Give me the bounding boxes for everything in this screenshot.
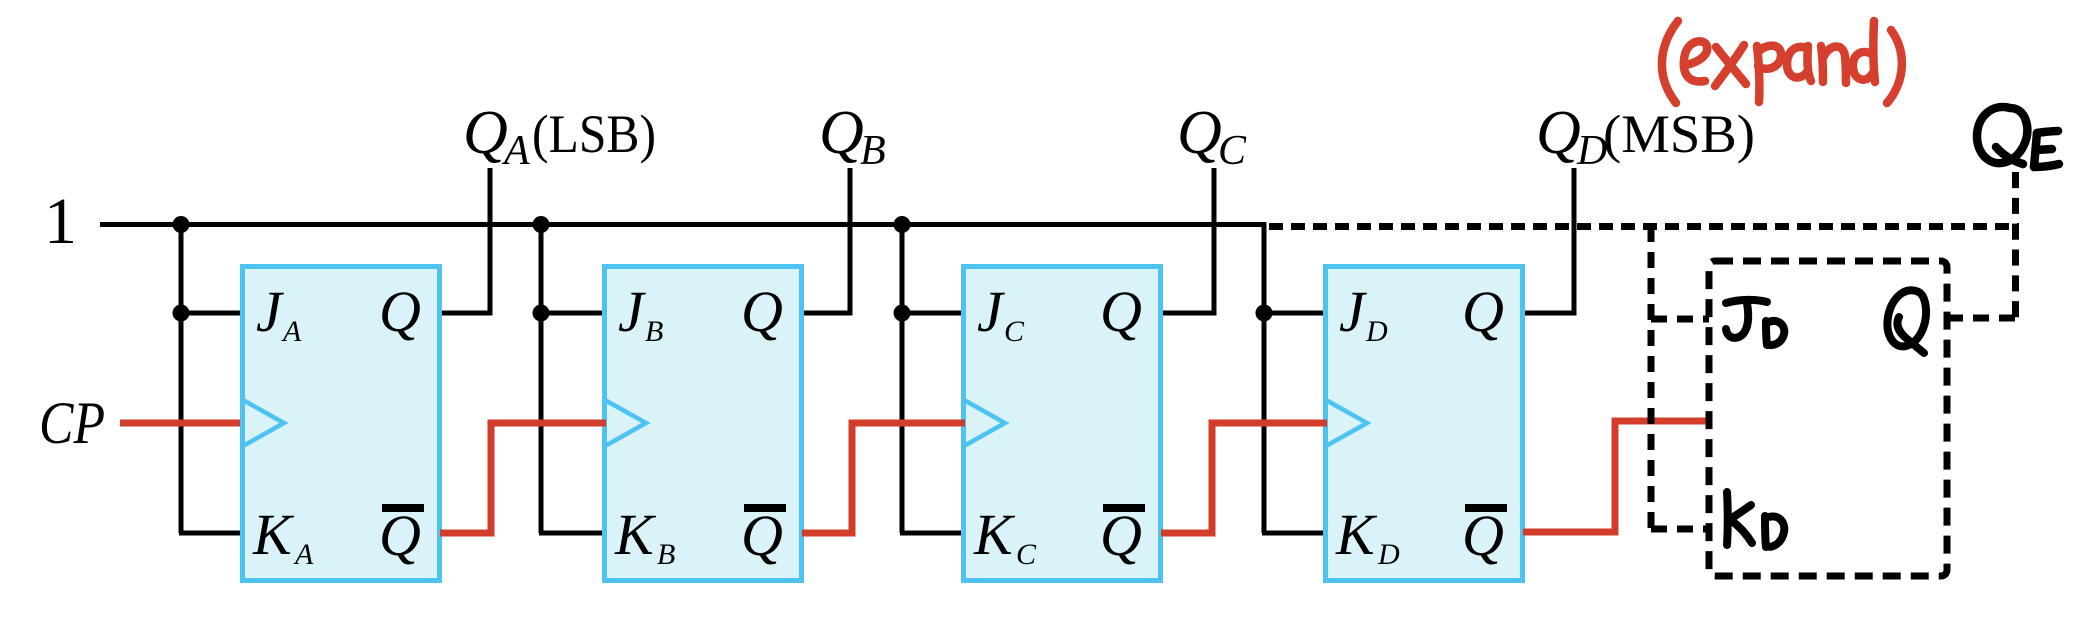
U1 pin label JA xyxy=(256,279,302,348)
svg-text:D: D xyxy=(1365,315,1388,348)
wire: Q-bar U2 to clock U3 (red) xyxy=(802,423,965,533)
node: J junction U1 xyxy=(173,305,190,322)
svg-text:Q: Q xyxy=(741,279,783,344)
label: QA(LSB) xyxy=(463,99,656,174)
svg-text:Q: Q xyxy=(463,99,508,167)
svg-text:K: K xyxy=(614,502,657,567)
wire: QD output (to label) xyxy=(1525,168,1574,313)
svg-text:CP: CP xyxy=(39,390,105,456)
annotation: (expand) (handwritten, red) xyxy=(1662,21,1902,103)
wire: J stub U1 xyxy=(181,311,242,316)
svg-text:K: K xyxy=(1335,502,1378,567)
svg-text:A: A xyxy=(501,128,530,174)
svg-text:A: A xyxy=(281,315,302,348)
wire: QB output (to label) xyxy=(804,168,850,313)
svg-text:Q: Q xyxy=(1536,99,1581,167)
wire: Q-bar U4 to clock U5 (red) xyxy=(1523,421,1707,532)
wire: feed vertical for U1 xyxy=(179,222,184,533)
svg-text:K: K xyxy=(252,502,295,567)
wire: J stub U4 xyxy=(1264,311,1325,316)
U1 pin label Q-bar xyxy=(379,503,424,568)
wire: QC output (to label) xyxy=(1163,168,1214,313)
wire: Q-bar U3 to clock U4 (red) xyxy=(1161,423,1327,533)
wire: K stub U1 xyxy=(179,531,242,536)
svg-text:A: A xyxy=(293,538,314,571)
U1 clock chevron xyxy=(243,400,284,446)
U4 pin label JD xyxy=(1339,279,1388,348)
svg-text:Q: Q xyxy=(819,99,864,167)
node: rail junction U3 xyxy=(894,216,911,233)
U2 clock chevron xyxy=(605,400,646,446)
node: J junction U3 xyxy=(894,305,911,322)
label: QD(MSB) xyxy=(1536,99,1755,174)
U3 pin label JC xyxy=(977,279,1025,348)
svg-text:K: K xyxy=(973,502,1016,567)
flip-flop U5 body (hand-drawn, dashed) xyxy=(1709,261,1947,576)
U2 pin label JB xyxy=(618,279,663,348)
wire: J stub U2 xyxy=(541,311,604,316)
svg-text:Q: Q xyxy=(1462,279,1504,344)
U3 pin label KC xyxy=(973,502,1037,571)
svg-text:(LSB): (LSB) xyxy=(532,104,656,164)
wire: K stub U2 xyxy=(539,531,604,536)
flip-flop U3 body xyxy=(964,267,1161,581)
svg-text:Q: Q xyxy=(741,503,783,568)
label: QE (handwritten) xyxy=(1977,107,2059,167)
wire: net-1 rail dashed extension to expansion stage xyxy=(1269,223,2019,230)
wire: K stub U3 xyxy=(900,531,963,536)
wire: CP clock (red) xyxy=(120,420,246,427)
svg-text:(MSB): (MSB) xyxy=(1603,104,1755,164)
node: J junction U2 xyxy=(533,305,550,322)
wire: K stub U5 (dashed) xyxy=(1651,526,1709,533)
wire: QE output stub (dashed) xyxy=(1947,315,2019,322)
wire: Q-bar U1 to clock U2 (red) xyxy=(440,423,606,533)
U5 handwritten pin label KD xyxy=(1727,492,1784,547)
svg-text:Q: Q xyxy=(1100,503,1142,568)
U5 handwritten pin label Q xyxy=(1887,290,1926,353)
wire: feed vertical for U2 xyxy=(539,222,544,533)
svg-text:J: J xyxy=(977,279,1006,344)
node: rail junction U1 xyxy=(173,216,190,233)
svg-text:C: C xyxy=(1218,128,1247,174)
U3 clock chevron xyxy=(964,400,1005,446)
svg-text:B: B xyxy=(657,538,675,571)
flip-flop U4 body xyxy=(1326,267,1523,581)
U2 pin label Q-bar xyxy=(741,503,786,568)
U2 pin label KB xyxy=(614,502,675,571)
svg-text:C: C xyxy=(1016,538,1037,571)
svg-text:Q: Q xyxy=(379,279,421,344)
node: J junction U4 xyxy=(1256,305,1273,322)
U4 pin label Q-bar xyxy=(1462,503,1507,568)
svg-text:D: D xyxy=(1377,538,1400,571)
U5 handwritten pin label JD xyxy=(1726,300,1784,345)
wire: J stub U3 xyxy=(902,311,963,316)
U1 pin label KA xyxy=(252,502,314,571)
label: QC xyxy=(1177,99,1247,174)
wire: feed vertical for U3 xyxy=(900,222,905,533)
svg-text:J: J xyxy=(618,279,647,344)
wire: K stub U4 xyxy=(1262,531,1325,536)
wire: net-1 rail (solid) xyxy=(100,222,1267,227)
svg-text:1: 1 xyxy=(44,185,77,258)
svg-text:C: C xyxy=(1004,315,1025,348)
wire: feed vertical U5 (dashed) xyxy=(1648,226,1655,529)
svg-text:B: B xyxy=(860,128,886,174)
U3 pin label Q-bar xyxy=(1100,503,1145,568)
svg-text:J: J xyxy=(256,279,285,344)
svg-text:B: B xyxy=(645,315,663,348)
wire: QA output (to label) xyxy=(442,168,490,313)
U4 clock chevron xyxy=(1326,400,1367,446)
svg-text:Q: Q xyxy=(1177,99,1222,167)
U4 pin label KD xyxy=(1335,502,1400,571)
wire: feed vertical for U4 xyxy=(1262,222,1267,533)
wire: J stub U5 (dashed) xyxy=(1651,316,1709,323)
svg-text:J: J xyxy=(1339,279,1368,344)
node: rail junction U2 xyxy=(533,216,550,233)
flip-flop U2 body xyxy=(605,267,802,581)
svg-text:Q: Q xyxy=(379,503,421,568)
flip-flop U1 body xyxy=(243,267,440,581)
label: QB xyxy=(819,99,886,174)
svg-text:Q: Q xyxy=(1100,279,1142,344)
svg-text:Q: Q xyxy=(1462,503,1504,568)
